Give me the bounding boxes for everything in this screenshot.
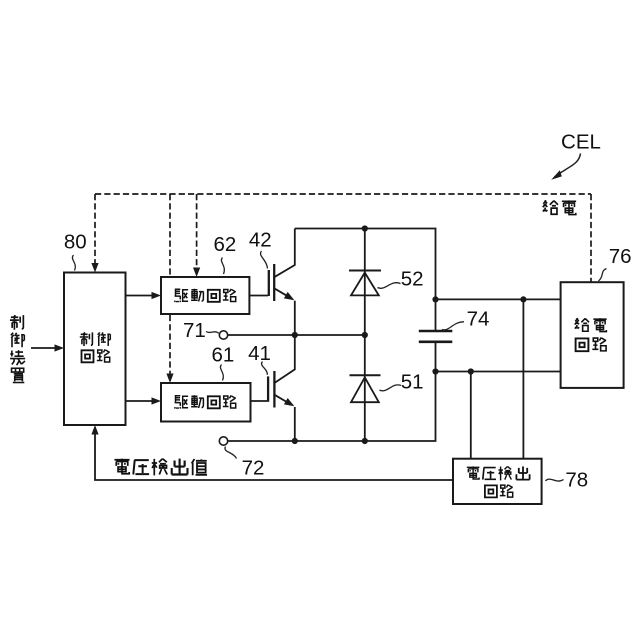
leader squiggle label 42 (261, 251, 268, 269)
label 給電回路 text in box 76 (575, 318, 607, 351)
arrowhead into control box 80 (55, 344, 65, 351)
label 41 (248, 342, 271, 365)
label 52 (401, 267, 424, 290)
label 61 (211, 343, 234, 366)
label 駆動回路 text in box 62 (175, 289, 236, 302)
wire sense drop right from node to box 78 (522, 299, 524, 458)
node junction dot middle rail / IGBT column (292, 332, 298, 338)
wire middle rail from terminal 71 to diode column (228, 334, 365, 336)
svg-text:74: 74 (467, 308, 490, 331)
wire CEL dashed right drop into power supply 76 (590, 194, 592, 282)
leader squiggle label 80 (72, 255, 75, 271)
svg-text:CEL: CEL (561, 130, 601, 153)
svg-text:78: 78 (565, 468, 588, 491)
wire DC feed top from node to power supply box 76 (436, 298, 561, 300)
leader squiggle label 76 to box corner (599, 269, 607, 282)
leader squiggle label 72 to terminal (225, 447, 237, 459)
wire feedback 電圧検出値 from box 78 to control 80 (95, 430, 453, 480)
label 72 (242, 457, 265, 480)
label 駆動回路 text in box 61 (175, 395, 236, 408)
svg-text:52: 52 (401, 267, 424, 290)
leader squiggle label 74 to capacitor (442, 322, 464, 330)
svg-text:62: 62 (213, 233, 236, 256)
wire CEL dashed drop into drive 62 (196, 194, 198, 269)
label 80 (64, 231, 87, 254)
leader squiggle label 62 (221, 258, 224, 275)
label 電圧検出回路 text in box 78 (467, 466, 530, 497)
wire drive 61 output to gate of Q41 (251, 400, 268, 402)
svg-text:80: 80 (64, 231, 87, 254)
label 42 (249, 229, 272, 252)
label 71 (183, 319, 206, 342)
arrowhead dashed into drive box 61 top (166, 374, 173, 384)
arrow CEL curved pointer (551, 154, 580, 180)
wire drive 62 output to gate of Q42 (249, 295, 268, 297)
label 76 (609, 245, 632, 268)
wire CEL dashed drop into drive 61 (passes behind box 62) (169, 194, 171, 375)
node junction dot lower rail / diode column (362, 438, 368, 444)
node junction dot sense tap right (520, 296, 526, 302)
svg-text:41: 41 (248, 342, 271, 365)
box 76 power supply circuit 給電回路 (561, 282, 624, 388)
label 62 (213, 233, 236, 256)
wire diode column vertical (364, 229, 366, 442)
leader squiggle label 61 (220, 365, 223, 381)
label 制御回路 text in box 80 (80, 332, 110, 362)
box 62 drive circuit 駆動回路 upper (161, 277, 249, 314)
label 51 (401, 371, 424, 394)
label 電圧検出値 feedback value text (114, 459, 207, 476)
wire lower rail from terminal 72 to capacitor column (228, 342, 436, 441)
svg-text:51: 51 (401, 371, 424, 394)
arrowhead emitter Q41 (284, 398, 296, 409)
wire top rail from Q42 collector to capacitor column (295, 229, 436, 332)
node junction dot lower rail / IGBT column (292, 438, 298, 444)
arrowhead emitter Q42 (284, 292, 296, 303)
terminal 72 circle (219, 437, 227, 445)
box 61 drive circuit 駆動回路 lower (161, 383, 251, 422)
capacitor C74 plates (419, 331, 453, 342)
wire sense drop left from node to box 78 (470, 372, 472, 459)
leader squiggle label 52 to diode (378, 283, 401, 289)
arrowhead into drive box 62 (152, 292, 162, 299)
node junction dot sense tap left (468, 368, 474, 374)
box 80 control circuit 制御回路 (64, 273, 126, 426)
wire input arrow from 制御装置 to control circuit 80 (31, 347, 60, 349)
wire CEL dashed left drop into control 80 (94, 194, 96, 264)
diode D51 lower freewheel (350, 375, 381, 402)
svg-text:61: 61 (211, 343, 234, 366)
node junction dot top rail / D52 (362, 225, 368, 231)
svg-text:76: 76 (609, 245, 632, 268)
leader squiggle label 51 to diode (380, 385, 402, 391)
wire control 80 to drive 62 (126, 295, 157, 297)
box 78 voltage detection circuit 電圧検出回路 (453, 459, 542, 504)
label CEL (561, 130, 601, 153)
wire control 80 to drive 61 (126, 400, 157, 402)
label 78 (565, 468, 588, 491)
svg-text:42: 42 (249, 229, 272, 252)
label 74 (467, 308, 490, 331)
arrowhead feedback into control box 80 bottom (91, 425, 98, 435)
label 制御装置 vertical input text (10, 315, 25, 382)
node junction dot middle rail / diode column (362, 332, 368, 338)
svg-text:72: 72 (242, 457, 265, 480)
leader squiggle label 71 to terminal (206, 332, 219, 334)
leader tilde label 78 (546, 479, 564, 481)
arrowhead dashed into control box 80 top (91, 263, 98, 273)
wire CEL dashed boundary top (95, 193, 591, 195)
label 給電 on CEL boundary (543, 200, 576, 214)
node junction dot capacitor column top feed (432, 296, 438, 302)
arrowhead dashed into drive box 62 top (193, 268, 200, 278)
diode D52 upper freewheel (349, 271, 381, 296)
transistor Q42 IGBT upper (269, 229, 295, 336)
node junction dot capacitor column bottom feed (432, 368, 438, 374)
svg-text:71: 71 (183, 319, 206, 342)
transistor Q41 IGBT lower (268, 335, 295, 441)
terminal 71 circle (219, 331, 227, 339)
leader squiggle label 41 (262, 362, 268, 375)
wire DC feed bottom from node to power supply box 76 (436, 371, 561, 373)
arrowhead into drive box 61 (152, 397, 162, 404)
